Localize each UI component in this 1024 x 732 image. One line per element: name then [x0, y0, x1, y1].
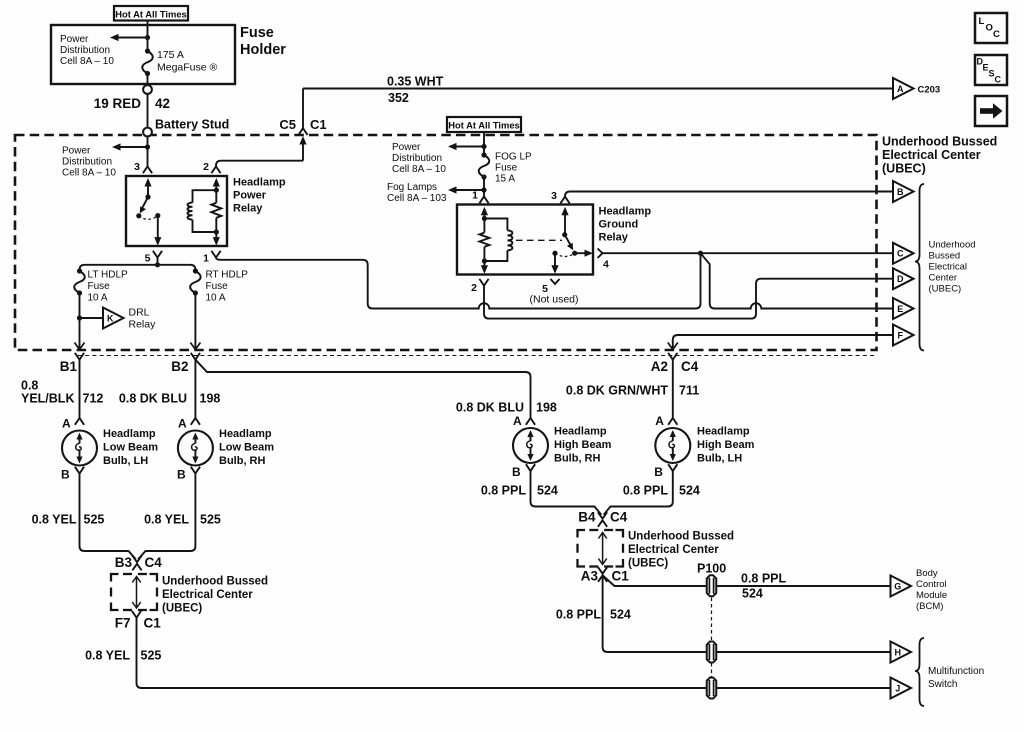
svg-text:3: 3 [551, 190, 557, 202]
svg-text:C1: C1 [612, 569, 630, 584]
svg-text:Headlamp: Headlamp [599, 206, 652, 218]
svg-text:C: C [993, 29, 1000, 40]
svg-text:0.8 DK BLU: 0.8 DK BLU [456, 401, 524, 415]
svg-text:4: 4 [603, 259, 609, 271]
svg-text:B: B [177, 468, 186, 482]
svg-text:525: 525 [84, 513, 105, 527]
svg-text:0.8 YEL: 0.8 YEL [32, 513, 77, 527]
svg-text:A: A [62, 417, 71, 431]
svg-text:C: C [995, 75, 1002, 85]
svg-text:Cell 8A – 10: Cell 8A – 10 [62, 168, 116, 179]
svg-text:15 A: 15 A [495, 174, 515, 185]
svg-text:Low Beam: Low Beam [103, 442, 158, 454]
svg-text:C1: C1 [144, 616, 162, 631]
svg-text:K: K [107, 313, 114, 323]
svg-text:F: F [897, 330, 903, 340]
svg-text:A3: A3 [581, 569, 599, 584]
svg-text:Module: Module [916, 590, 947, 601]
svg-text:0.8 PPL: 0.8 PPL [741, 572, 787, 586]
svg-text:D: D [897, 274, 904, 284]
svg-text:A: A [513, 414, 522, 428]
svg-text:(BCM): (BCM) [916, 601, 943, 612]
svg-text:Power: Power [392, 142, 421, 153]
svg-text:Low Beam: Low Beam [219, 442, 274, 454]
svg-text:10 A: 10 A [206, 293, 226, 304]
svg-text:C4: C4 [610, 510, 628, 525]
svg-text:DRL: DRL [129, 307, 150, 319]
svg-text:B1: B1 [60, 359, 78, 374]
svg-text:(UBEC): (UBEC) [929, 284, 962, 295]
svg-text:C1: C1 [310, 117, 327, 132]
svg-text:Hot At All Times: Hot At All Times [448, 120, 520, 131]
svg-text:3: 3 [134, 161, 140, 173]
svg-text:B: B [61, 468, 70, 482]
svg-text:B: B [897, 187, 904, 197]
svg-text:Bulb, RH: Bulb, RH [554, 453, 600, 465]
svg-text:Headlamp: Headlamp [233, 177, 286, 189]
svg-text:Ground: Ground [599, 219, 639, 231]
svg-text:FOG LP: FOG LP [495, 152, 532, 163]
svg-text:J: J [895, 683, 900, 693]
svg-text:Control: Control [916, 579, 947, 590]
svg-text:524: 524 [742, 587, 763, 601]
svg-text:Headlamp: Headlamp [554, 426, 607, 438]
svg-text:524: 524 [679, 484, 700, 498]
svg-text:Relay: Relay [129, 319, 157, 331]
svg-text:1: 1 [472, 190, 478, 202]
svg-text:524: 524 [610, 608, 631, 622]
svg-text:Power: Power [233, 190, 267, 202]
svg-text:(Not used): (Not used) [530, 294, 579, 306]
svg-text:YEL/BLK: YEL/BLK [21, 392, 74, 406]
svg-text:LT HDLP: LT HDLP [88, 270, 129, 281]
svg-text:RT HDLP: RT HDLP [206, 270, 249, 281]
svg-text:0.8 YEL: 0.8 YEL [85, 649, 130, 663]
svg-text:A: A [655, 414, 664, 428]
svg-text:10 A: 10 A [88, 293, 108, 304]
svg-text:Fuse: Fuse [240, 25, 274, 41]
svg-text:Cell 8A – 10: Cell 8A – 10 [392, 164, 446, 175]
svg-text:B2: B2 [171, 359, 188, 374]
svg-text:0.8 PPL: 0.8 PPL [623, 484, 669, 498]
svg-text:1: 1 [203, 253, 209, 265]
svg-text:2: 2 [471, 282, 477, 294]
svg-text:525: 525 [200, 513, 221, 527]
svg-text:Relay: Relay [233, 203, 263, 215]
svg-text:0.8: 0.8 [21, 379, 38, 393]
svg-text:Fog Lamps: Fog Lamps [387, 182, 437, 193]
svg-text:Cell 8A – 103: Cell 8A – 103 [387, 193, 447, 204]
svg-text:Distribution: Distribution [392, 153, 442, 164]
svg-text:Fuse: Fuse [495, 163, 518, 174]
svg-text:0.8 YEL: 0.8 YEL [144, 513, 189, 527]
svg-text:Power: Power [60, 34, 89, 45]
svg-text:C: C [897, 249, 904, 259]
svg-text:C4: C4 [681, 359, 699, 374]
svg-text:0.8 PPL: 0.8 PPL [556, 608, 602, 622]
svg-text:Cell 8A – 10: Cell 8A – 10 [60, 56, 114, 67]
svg-text:711: 711 [679, 384, 699, 398]
svg-text:A2: A2 [651, 359, 668, 374]
svg-text:Distribution: Distribution [62, 157, 112, 168]
svg-text:Battery Stud: Battery Stud [155, 118, 229, 132]
svg-text:19 RED: 19 RED [94, 96, 142, 111]
svg-text:B: B [654, 465, 663, 479]
svg-text:Underhood Bussed: Underhood Bussed [162, 576, 268, 588]
svg-text:198: 198 [536, 401, 557, 415]
svg-text:C5: C5 [279, 117, 296, 132]
svg-text:Headlamp: Headlamp [697, 426, 750, 438]
svg-text:525: 525 [141, 649, 162, 663]
svg-text:B3: B3 [115, 555, 133, 570]
svg-text:G: G [894, 581, 901, 591]
svg-text:P100: P100 [697, 562, 726, 576]
svg-text:Fuse: Fuse [88, 281, 111, 292]
svg-text:198: 198 [200, 392, 221, 406]
svg-text:Body: Body [916, 568, 938, 579]
svg-text:Multifunction: Multifunction [928, 666, 984, 677]
svg-text:C203: C203 [918, 85, 941, 96]
svg-text:(UBEC): (UBEC) [882, 162, 926, 176]
svg-text:(UBEC): (UBEC) [162, 603, 202, 615]
svg-text:Electrical: Electrical [929, 262, 968, 273]
svg-text:0.8 PPL: 0.8 PPL [481, 484, 527, 498]
svg-text:MegaFuse ®: MegaFuse ® [157, 62, 218, 74]
svg-text:175 A: 175 A [157, 49, 184, 61]
svg-text:A: A [897, 84, 904, 94]
svg-text:Holder: Holder [240, 42, 286, 58]
svg-text:Underhood Bussed: Underhood Bussed [628, 531, 734, 543]
svg-text:Electrical Center: Electrical Center [628, 544, 719, 556]
svg-text:Headlamp: Headlamp [103, 428, 156, 440]
svg-text:High Beam: High Beam [554, 439, 612, 451]
svg-text:Electrical Center: Electrical Center [882, 148, 981, 162]
svg-text:Electrical Center: Electrical Center [162, 589, 253, 601]
svg-text:0.8 DK BLU: 0.8 DK BLU [119, 392, 187, 406]
svg-text:Bussed: Bussed [929, 251, 961, 262]
svg-text:Switch: Switch [928, 679, 957, 690]
svg-text:Fuse: Fuse [206, 281, 229, 292]
svg-text:B: B [512, 465, 521, 479]
svg-text:0.8 DK GRN/WHT: 0.8 DK GRN/WHT [566, 384, 668, 398]
svg-text:Center: Center [929, 273, 958, 284]
svg-text:Hot At All Times: Hot At All Times [115, 8, 187, 19]
svg-text:Bulb, LH: Bulb, LH [103, 455, 148, 467]
svg-text:A: A [178, 417, 187, 431]
svg-text:E: E [897, 304, 903, 314]
svg-text:5: 5 [145, 253, 151, 265]
svg-text:352: 352 [388, 91, 409, 105]
svg-text:F7: F7 [115, 616, 131, 631]
svg-text:High Beam: High Beam [697, 439, 755, 451]
svg-text:42: 42 [155, 96, 170, 111]
svg-text:Bulb, RH: Bulb, RH [219, 455, 265, 467]
svg-text:Bulb, LH: Bulb, LH [697, 453, 742, 465]
svg-text:Underhood: Underhood [929, 240, 976, 251]
svg-text:712: 712 [83, 392, 104, 406]
svg-text:Underhood Bussed: Underhood Bussed [882, 135, 997, 149]
svg-text:Headlamp: Headlamp [219, 428, 272, 440]
svg-text:524: 524 [537, 484, 558, 498]
svg-text:Distribution: Distribution [60, 45, 110, 56]
svg-text:L: L [979, 16, 985, 27]
svg-text:Relay: Relay [599, 232, 629, 244]
svg-text:H: H [894, 647, 901, 657]
svg-text:(UBEC): (UBEC) [628, 558, 668, 570]
svg-text:Power: Power [62, 146, 91, 157]
svg-text:C4: C4 [145, 555, 163, 570]
svg-text:2: 2 [203, 161, 209, 173]
svg-text:B4: B4 [578, 510, 596, 525]
svg-text:0.35 WHT: 0.35 WHT [387, 75, 444, 89]
svg-text:O: O [986, 23, 993, 34]
